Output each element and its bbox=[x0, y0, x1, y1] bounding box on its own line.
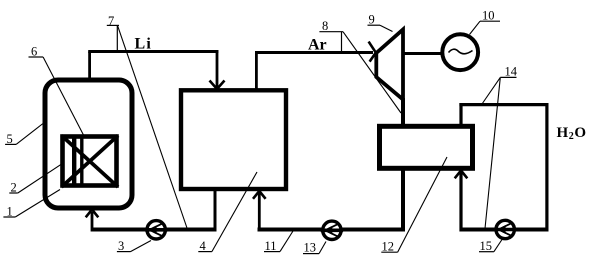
svg-text:9: 9 bbox=[369, 13, 375, 27]
arrow into condenser 12 bottom bbox=[455, 171, 468, 179]
label 8 with leaders bbox=[319, 19, 401, 113]
label 10 with leader bbox=[470, 9, 501, 35]
wire: right loop bottom pipe through pump 15 bbox=[461, 228, 549, 232]
wire: Li top line bbox=[88, 50, 218, 53]
wire: Li riser from vessel top bbox=[88, 52, 91, 81]
label 14 with leaders bbox=[482, 65, 518, 229]
wire: shaft turbine to generator bbox=[403, 52, 441, 55]
label 1 with leader bbox=[3, 190, 60, 219]
label 2 with leader bbox=[9, 164, 61, 194]
label 4 with leader bbox=[198, 172, 257, 253]
condenser 12 (box) bbox=[380, 126, 473, 168]
generator 10 (circle with sine) bbox=[442, 34, 478, 70]
arrow into box 4 top bbox=[210, 81, 225, 90]
wire: bottom pipe through pump 13 bbox=[258, 228, 406, 232]
svg-text:Ar: Ar bbox=[308, 37, 327, 54]
heat exchanger 4 (large box) bbox=[181, 90, 286, 189]
label 6 with leader bbox=[29, 45, 85, 137]
label 12 with leader bbox=[381, 157, 447, 254]
svg-text:10: 10 bbox=[482, 9, 495, 23]
reactor core box 2 (crossed square) bbox=[62, 136, 119, 188]
wire: drop to heat exchanger 4 bbox=[216, 50, 219, 87]
arrow into turbine bbox=[369, 42, 376, 62]
wire: riser into vessel bottom bbox=[91, 212, 94, 232]
svg-text:12: 12 bbox=[382, 240, 395, 254]
wire: Ar riser from box 4 top bbox=[255, 53, 258, 91]
label 11 with leader bbox=[264, 231, 293, 253]
label 3 with leader bbox=[117, 239, 151, 253]
wire: box4 bottom-left drop bbox=[214, 190, 217, 232]
svg-text:13: 13 bbox=[304, 241, 317, 255]
turbine 9 (trapezoid) bbox=[376, 30, 403, 100]
reactor vessel 1 (rounded rectangle) bbox=[45, 80, 132, 208]
wire: box4 bottom-right riser with arrow bbox=[258, 193, 261, 232]
pump 15 bbox=[494, 220, 516, 238]
wire: right loop left riser to condenser bottom bbox=[459, 172, 462, 232]
arrow into box 4 bottom bbox=[253, 191, 266, 199]
svg-text:Li: Li bbox=[135, 36, 153, 53]
svg-text:8: 8 bbox=[322, 19, 328, 33]
svg-text:3: 3 bbox=[118, 239, 124, 253]
svg-text:4: 4 bbox=[200, 239, 207, 253]
label 9 with leader bbox=[368, 13, 393, 32]
label 15 with leader bbox=[479, 239, 502, 253]
wire: bottom pipe to pump 3 and vessel bbox=[92, 228, 217, 232]
wire: riser to condenser 12 bottom bbox=[401, 167, 405, 232]
pump 13 bbox=[321, 221, 343, 239]
svg-text:14: 14 bbox=[505, 65, 518, 79]
wire: right loop top pipe bbox=[459, 103, 548, 106]
wire: right loop right edge bbox=[545, 103, 548, 232]
label 7 with leaders bbox=[107, 14, 187, 228]
svg-text:11: 11 bbox=[265, 239, 277, 253]
label 5 with leader bbox=[5, 124, 43, 147]
arrow into vessel bottom bbox=[86, 210, 99, 218]
label 13 with leader bbox=[303, 241, 326, 255]
wire: right loop top corner vertical into condenser top bbox=[459, 103, 462, 124]
wire: Ar top line to turbine bbox=[255, 51, 373, 54]
svg-text:15: 15 bbox=[480, 239, 493, 253]
pump 3 bbox=[145, 221, 168, 239]
wire: turbine exhaust down to condenser 12 bbox=[401, 98, 405, 126]
